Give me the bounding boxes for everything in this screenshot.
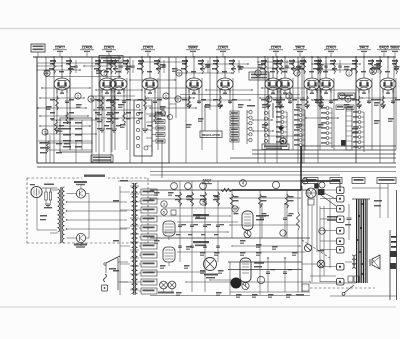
svg-text:3: 3	[163, 202, 165, 206]
svg-text:1: 1	[103, 71, 105, 75]
svg-text:6AQ7: 6AQ7	[203, 179, 212, 183]
svg-text:1: 1	[178, 71, 180, 75]
svg-text:5: 5	[163, 210, 165, 214]
svg-text:6: 6	[347, 97, 349, 101]
svg-text:1: 1	[348, 71, 350, 75]
svg-text:W: W	[233, 207, 237, 211]
svg-text:REGULATOR: REGULATOR	[202, 133, 221, 137]
svg-text:12: 12	[371, 69, 376, 74]
